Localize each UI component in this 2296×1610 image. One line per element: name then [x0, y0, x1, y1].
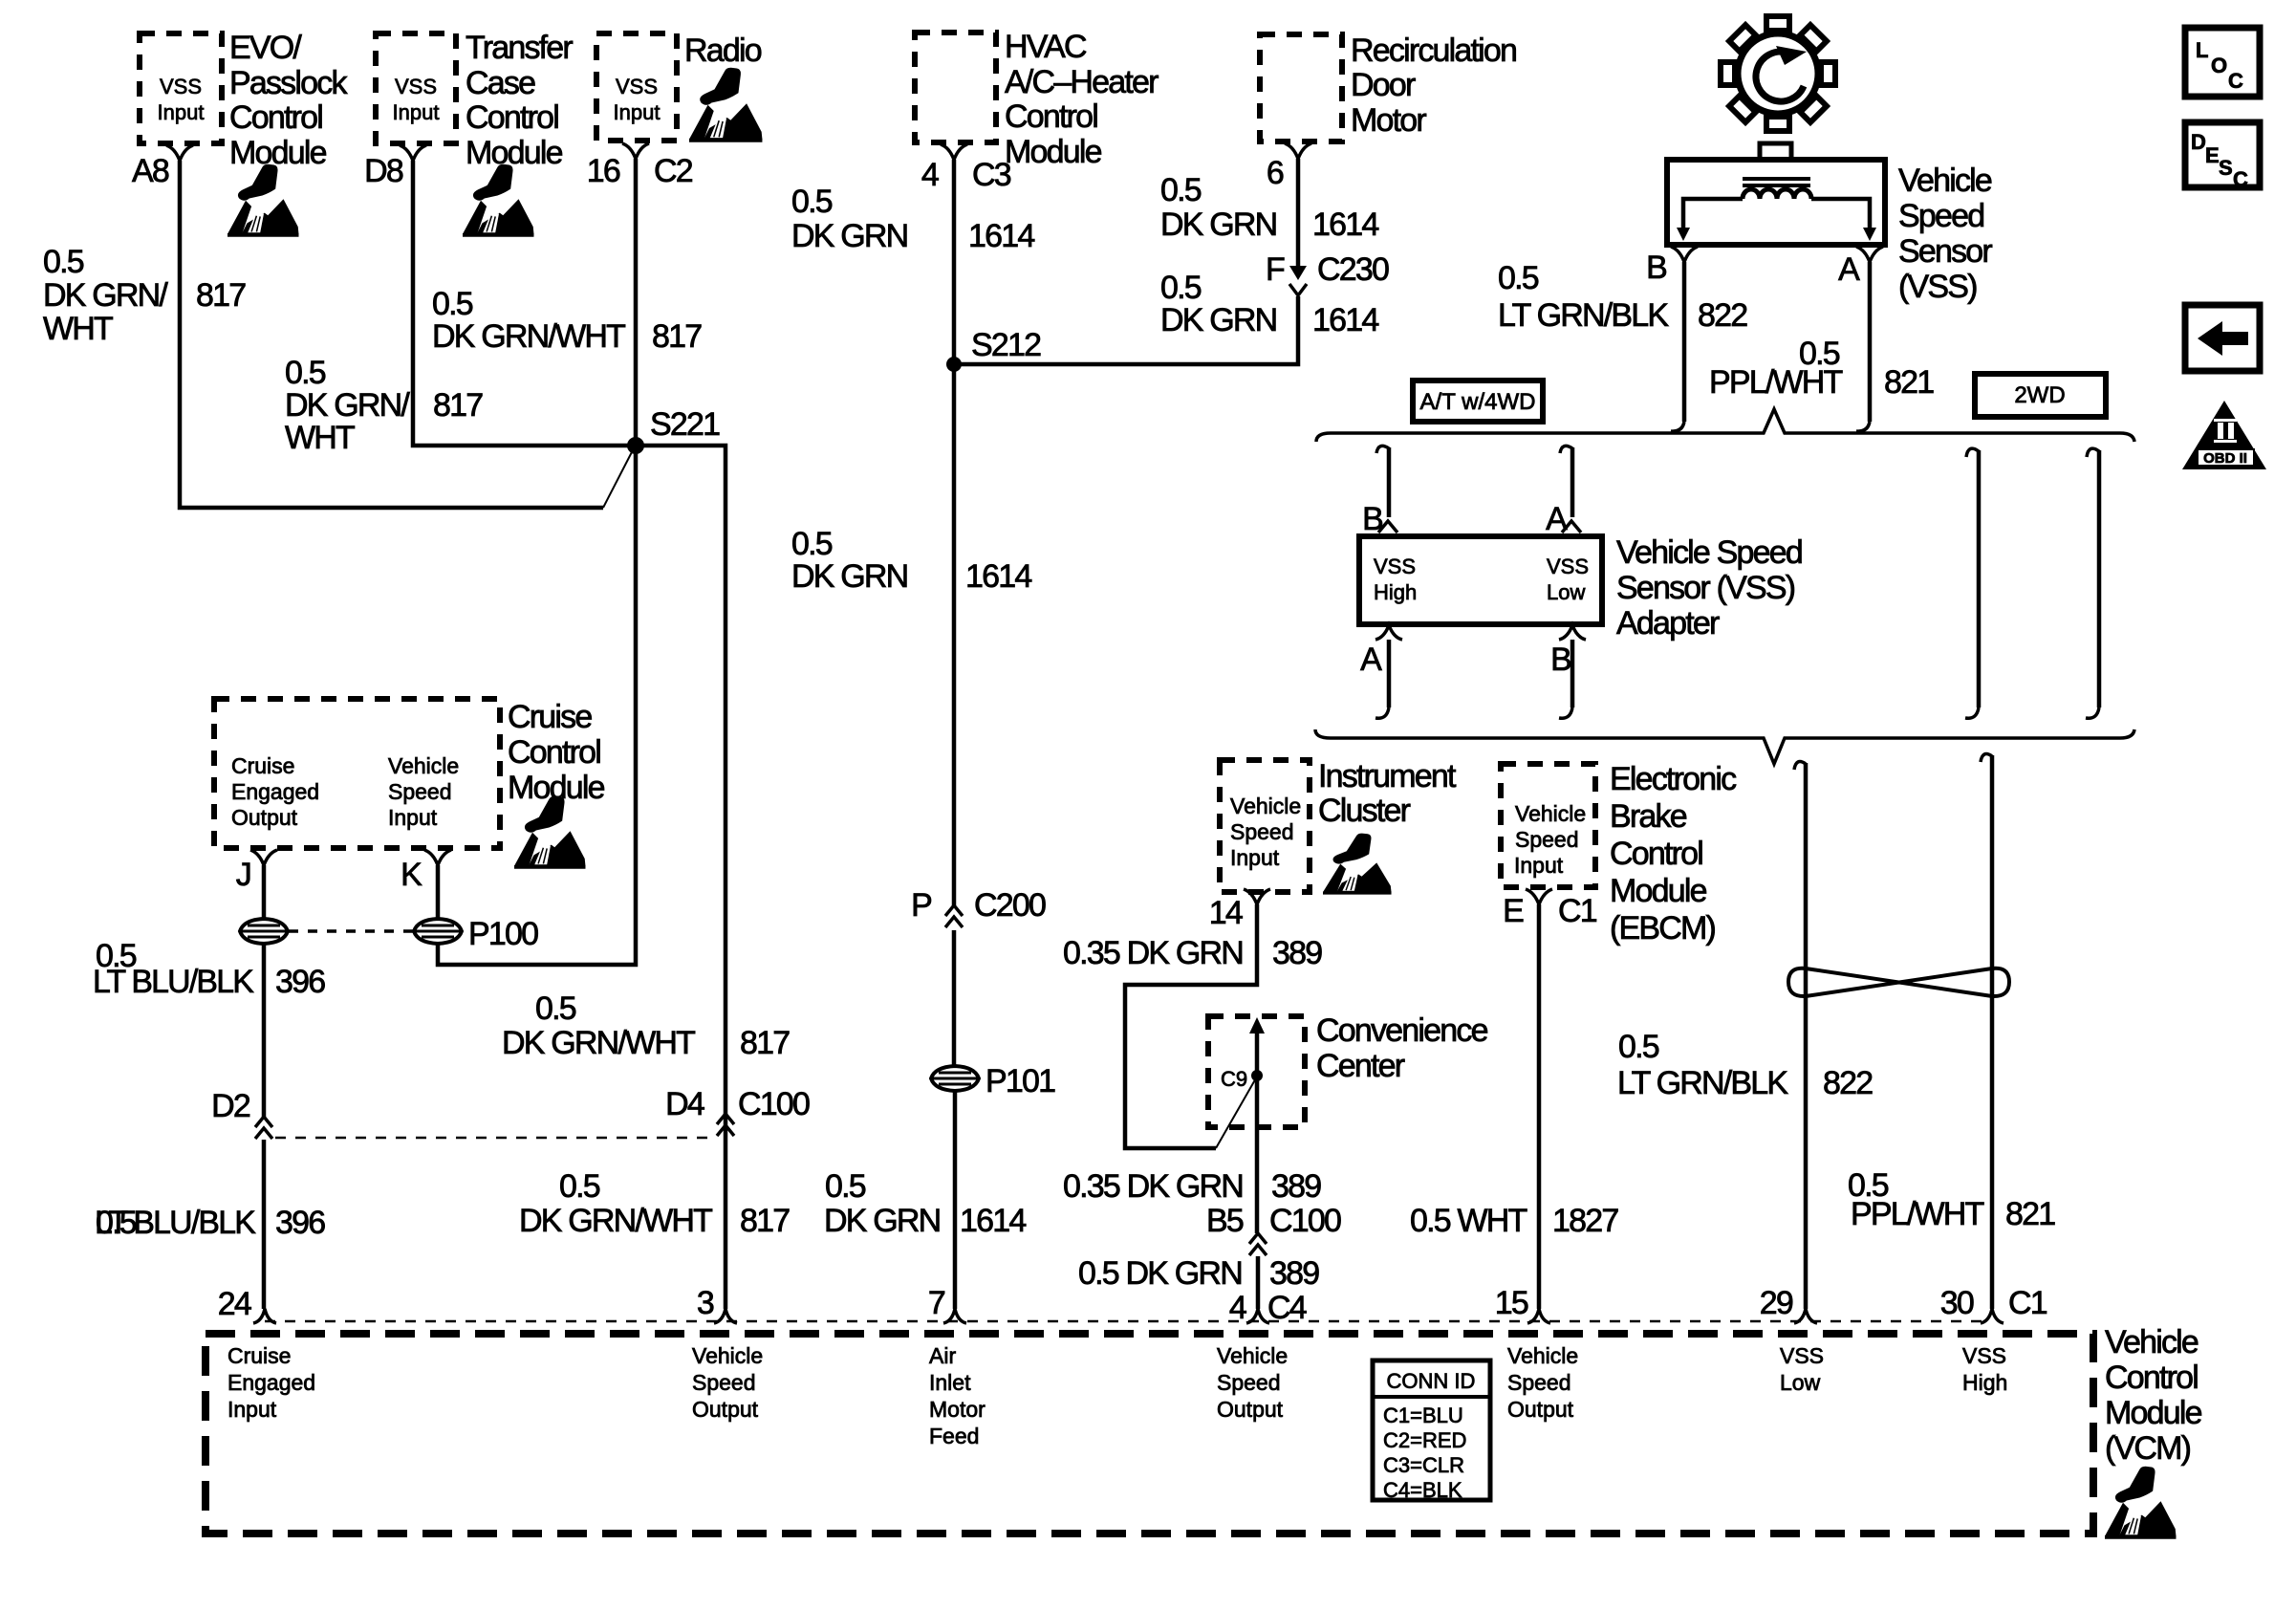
wire 822 from VSS B to harness brace [1682, 262, 1687, 422]
wire 396 from J to P100 [262, 865, 267, 919]
sensor coil winding [1743, 189, 1811, 199]
svg-text:0.5: 0.5 [791, 526, 833, 562]
svg-text:A: A [1360, 642, 1382, 678]
svg-text:817: 817 [740, 1203, 790, 1239]
svg-text:DK GRN: DK GRN [1160, 302, 1276, 338]
svg-text:Adapter: Adapter [1616, 605, 1720, 642]
svg-text:D: D [2191, 130, 2206, 154]
svg-text:1614: 1614 [960, 1203, 1026, 1239]
svg-text:1827: 1827 [1552, 1203, 1618, 1239]
svg-text:Control: Control [2105, 1360, 2198, 1396]
svg-text:EVO/: EVO/ [229, 30, 302, 66]
rotation arrow inside gear [1756, 52, 1804, 101]
svg-text:VSS: VSS [160, 75, 202, 98]
svg-text:Speed: Speed [1217, 1370, 1281, 1395]
svg-text:D2: D2 [211, 1088, 250, 1124]
svg-text:30: 30 [1940, 1285, 1974, 1321]
svg-text:0.5: 0.5 [1160, 172, 1202, 208]
svg-text:E: E [1503, 893, 1524, 929]
pin E C1 connector of EBCM [1526, 889, 1552, 904]
svg-text:Sensor: Sensor [1898, 233, 1992, 270]
adapter pin B lower connector [1559, 625, 1586, 640]
svg-text:Instrument: Instrument [1318, 758, 1457, 794]
sensor core bars [1743, 179, 1810, 185]
svg-text:LT BLU/BLK: LT BLU/BLK [93, 964, 254, 1000]
wire 817 from D8 to S221 [413, 161, 636, 446]
svg-text:Low: Low [1547, 580, 1585, 604]
svg-text:(VCM): (VCM) [2105, 1430, 2191, 1467]
dashed pairing line of P100 [289, 929, 414, 933]
pin A connector of VSS [1856, 247, 1883, 262]
pin K connector of Cruise module [424, 850, 451, 865]
connector C200 pin P (double chevron) [945, 905, 963, 927]
ESD symbol for EVO module [227, 164, 298, 237]
svg-text:Vehicle: Vehicle [1515, 801, 1586, 826]
svg-text:822: 822 [1823, 1065, 1873, 1101]
svg-text:DK GRN: DK GRN [791, 558, 907, 595]
svg-text:S: S [2219, 156, 2233, 180]
svg-text:Cluster: Cluster [1318, 793, 1411, 829]
svg-text:DK GRN: DK GRN [1160, 207, 1276, 243]
svg-text:C1=BLU: C1=BLU [1383, 1403, 1463, 1427]
svg-text:DK GRN/WHT: DK GRN/WHT [502, 1025, 695, 1061]
svg-text:A/T w/4WD: A/T w/4WD [1420, 389, 1536, 415]
ESD symbol for Radio [689, 68, 762, 142]
wire from K pin into P100 [436, 865, 441, 919]
svg-text:1614: 1614 [968, 218, 1034, 254]
svg-text:Engaged: Engaged [227, 1370, 315, 1395]
svg-text:Cruise: Cruise [227, 1343, 291, 1368]
svg-text:LT BLU/BLK: LT BLU/BLK [95, 1205, 256, 1241]
sensor mounting tab [1760, 143, 1791, 160]
stub wire A into adapter [1560, 446, 1572, 453]
VCM pin 15 connector [1527, 1309, 1550, 1323]
long 2WD wire 821 (pass-through) [2087, 448, 2099, 457]
svg-text:F: F [1266, 251, 1285, 288]
svg-text:0.35 DK GRN: 0.35 DK GRN [1063, 935, 1243, 971]
svg-text:Vehicle: Vehicle [1507, 1343, 1578, 1368]
svg-text:Motor: Motor [1351, 102, 1426, 139]
svg-text:(EBCM): (EBCM) [1610, 910, 1716, 946]
svg-text:Input: Input [1230, 845, 1280, 870]
svg-text:Passlock: Passlock [229, 65, 348, 101]
svg-text:Control: Control [1005, 98, 1097, 135]
svg-text:C1: C1 [2008, 1285, 2047, 1321]
pin 14 connector of Instrument Cluster [1244, 889, 1270, 904]
svg-text:Inlet: Inlet [929, 1370, 971, 1395]
svg-text:C: C [2233, 167, 2248, 191]
svg-text:Input: Input [393, 100, 440, 124]
connector C230 pin F (arrow + chevron) [1289, 266, 1307, 280]
svg-text:Output: Output [231, 805, 298, 830]
svg-text:C230: C230 [1317, 251, 1389, 288]
svg-text:Input: Input [1514, 853, 1564, 878]
svg-text:396: 396 [275, 964, 325, 1000]
ESD symbol for Transfer Case module [463, 164, 533, 237]
module U9 Electronic Brake Control Module EBCM (dashed box) [1501, 764, 1595, 887]
connector P101 pancake [931, 1066, 979, 1091]
pin D8 connector of Transfer Case module [400, 145, 426, 161]
svg-text:Vehicle: Vehicle [692, 1343, 763, 1368]
svg-text:VSS: VSS [616, 75, 658, 98]
wire 1614 branch S212 to C230 [954, 296, 1298, 364]
VCM pin 7 connector [943, 1309, 966, 1323]
svg-text:High: High [1962, 1370, 2007, 1395]
module U7 Instrument Cluster (dashed box) [1220, 760, 1310, 892]
harness brace lower [1315, 729, 2134, 764]
svg-text:L: L [2196, 38, 2208, 62]
wire 389 from C100 to VCM pin 4 [1256, 1256, 1261, 1309]
svg-text:DK GRN: DK GRN [824, 1203, 940, 1239]
svg-text:LT GRN/BLK: LT GRN/BLK [1498, 297, 1669, 334]
svg-text:Vehicle: Vehicle [1230, 794, 1301, 818]
svg-text:B: B [1550, 642, 1570, 678]
svg-text:B: B [1362, 501, 1382, 537]
svg-text:0.5: 0.5 [791, 184, 833, 220]
svg-text:E: E [2205, 143, 2220, 167]
svg-text:CONN ID: CONN ID [1387, 1369, 1476, 1393]
svg-text:Module: Module [229, 135, 327, 171]
svg-text:C1: C1 [1558, 893, 1597, 929]
long 2WD wire 822 (pass-through) [1966, 448, 1979, 457]
svg-text:0.5: 0.5 [825, 1168, 866, 1205]
svg-text:Vehicle Speed: Vehicle Speed [1616, 534, 1802, 571]
svg-text:24: 24 [218, 1286, 251, 1322]
option box 2WD [1975, 374, 2106, 417]
svg-text:14: 14 [1209, 895, 1243, 931]
wire 396 from P100 down to D2 [262, 945, 267, 1117]
svg-text:C2: C2 [654, 153, 693, 189]
svg-text:C100: C100 [738, 1086, 810, 1122]
svg-text:817: 817 [196, 277, 246, 314]
svg-text:P100: P100 [468, 916, 538, 952]
svg-text:B5: B5 [1206, 1203, 1244, 1239]
svg-text:0.5: 0.5 [1618, 1029, 1659, 1065]
svg-text:Speed: Speed [1507, 1370, 1571, 1395]
svg-text:O: O [2211, 54, 2227, 77]
connector C100 pin B5 (double chevron) [1249, 1233, 1267, 1255]
svg-text:Air: Air [929, 1343, 956, 1368]
ESD symbol for Instrument Cluster [1323, 834, 1392, 895]
svg-text:Speed: Speed [388, 779, 452, 804]
connector P100 (K side pancake) [414, 919, 462, 944]
svg-text:PPL/WHT: PPL/WHT [1709, 364, 1843, 401]
svg-text:Vehicle: Vehicle [1898, 163, 1992, 199]
reluctor gear of Vehicle Speed Sensor [1721, 16, 1835, 131]
svg-text:A/C–Heater: A/C–Heater [1005, 64, 1159, 100]
icon DESC box [2185, 122, 2260, 187]
svg-text:Speed: Speed [692, 1370, 756, 1395]
adapter pin A lower connector [1375, 625, 1402, 640]
svg-text:389: 389 [1269, 1255, 1319, 1292]
svg-text:Cruise: Cruise [508, 699, 592, 735]
svg-text:29: 29 [1760, 1285, 1793, 1321]
VCM pin 3 connector [714, 1309, 737, 1323]
module U3 Radio (dashed box) [596, 33, 677, 141]
svg-text:WHT: WHT [43, 311, 113, 347]
svg-text:Module: Module [466, 135, 563, 171]
svg-text:Vehicle: Vehicle [1217, 1343, 1288, 1368]
svg-text:Output: Output [1217, 1397, 1284, 1422]
module U2 Transfer Case Control Module (dashed box) [376, 33, 456, 143]
wire 821 VSS High to VCM pin 30 [1981, 754, 1992, 762]
svg-text:High: High [1374, 580, 1417, 604]
icon LOC box [2185, 28, 2260, 97]
pin A8 connector of EVO module [166, 145, 193, 161]
module U6 Recirculation Door Motor (dashed box) [1260, 34, 1342, 141]
svg-text:VSS: VSS [1374, 555, 1416, 578]
svg-text:P101: P101 [986, 1063, 1055, 1099]
wire 1614 from C200 to P101 [952, 930, 957, 1066]
wire arrow head into Convenience Center [1249, 1017, 1265, 1033]
svg-text:A8: A8 [132, 153, 169, 189]
terminal C9 [1251, 1070, 1263, 1081]
wire thin diagonal into C9 [1216, 1077, 1257, 1148]
stub wire B into adapter [1376, 446, 1389, 453]
connector P100 (J side pancake) [240, 919, 288, 944]
svg-text:Low: Low [1780, 1370, 1821, 1395]
svg-text:C9: C9 [1221, 1067, 1247, 1091]
component Vehicle Speed Sensor (VSS) Adapter [1359, 536, 1602, 624]
svg-text:0.5: 0.5 [43, 244, 84, 280]
svg-text:1614: 1614 [1312, 302, 1378, 338]
wire 396 from D2 to VCM pin 24 [262, 1140, 267, 1309]
svg-text:DK GRN/WHT: DK GRN/WHT [432, 318, 625, 355]
svg-text:HVAC: HVAC [1005, 29, 1087, 65]
svg-text:Module: Module [2105, 1395, 2202, 1431]
svg-text:7: 7 [928, 1285, 945, 1321]
svg-text:VSS: VSS [1962, 1343, 2006, 1368]
svg-text:Motor: Motor [929, 1397, 986, 1422]
wire 1614 from P101 to VCM pin 7 [953, 1091, 958, 1309]
svg-text:Output: Output [692, 1397, 759, 1422]
wire thin diagonal into S221 [603, 446, 635, 508]
svg-text:396: 396 [275, 1205, 325, 1241]
svg-text:Module: Module [1005, 134, 1102, 170]
svg-text:817: 817 [652, 318, 702, 355]
svg-text:Control: Control [508, 734, 600, 771]
svg-text:K: K [401, 857, 422, 893]
svg-text:817: 817 [740, 1025, 790, 1061]
component Vehicle Speed Sensor (VSS) body [1667, 160, 1885, 245]
sensor internal leads with arrows [1683, 199, 1870, 229]
svg-text:0.5 DK GRN: 0.5 DK GRN [1078, 1255, 1242, 1292]
connector C100 D4 (double chevron) [717, 1114, 734, 1136]
svg-text:3: 3 [697, 1285, 714, 1321]
wire 821 from VSS A to harness brace [1868, 262, 1873, 422]
option box A/T w/4WD [1413, 381, 1543, 422]
svg-text:Radio: Radio [684, 33, 762, 69]
svg-text:Vehicle: Vehicle [2105, 1324, 2199, 1360]
svg-text:0.5: 0.5 [285, 355, 326, 391]
svg-text:821: 821 [1884, 364, 1934, 401]
svg-text:DK GRN/WHT: DK GRN/WHT [519, 1203, 712, 1239]
pin B connector of VSS [1671, 247, 1698, 262]
svg-text:Output: Output [1507, 1397, 1574, 1422]
svg-text:D4: D4 [665, 1086, 704, 1122]
svg-text:VSS: VSS [1547, 555, 1589, 578]
dashed connector line D2 to D4 [275, 1137, 713, 1140]
wire 817 from Radio C2 down through S221 to P100 leg [438, 159, 636, 965]
wire 1614 from HVAC C3 down to C200 [952, 160, 957, 905]
module U10 Vehicle Control Module VCM (dashed box) [206, 1334, 2093, 1534]
svg-text:Input: Input [158, 100, 205, 124]
svg-text:C200: C200 [974, 887, 1046, 924]
wire 389 from pin 14 looping to Convenience Center [1125, 904, 1257, 1148]
VCM pin 30 connector [1981, 1309, 2004, 1323]
svg-text:PPL/WHT: PPL/WHT [1851, 1196, 1984, 1232]
svg-text:1614: 1614 [965, 558, 1031, 595]
svg-text:C3=CLR: C3=CLR [1383, 1453, 1464, 1477]
svg-text:J: J [236, 857, 250, 893]
svg-text:DK GRN: DK GRN [791, 218, 907, 254]
svg-text:D8: D8 [364, 153, 403, 189]
svg-text:817: 817 [433, 387, 483, 424]
svg-text:(VSS): (VSS) [1898, 269, 1977, 305]
svg-text:Input: Input [614, 100, 661, 124]
wire 1827 from EBCM E to VCM pin 15 [1537, 904, 1542, 1309]
svg-text:Case: Case [466, 65, 535, 101]
module U1 EVO/Passlock Control Module (dashed box) [140, 33, 222, 143]
wire 389 from C9 down to C100 B5 [1255, 1033, 1260, 1233]
svg-text:16: 16 [587, 153, 620, 189]
pin J connector of Cruise module [250, 850, 277, 865]
CONN ID legend table [1373, 1360, 1490, 1500]
splice S221 [627, 437, 644, 454]
svg-text:Convenience: Convenience [1316, 1012, 1488, 1049]
svg-text:Control: Control [466, 99, 558, 136]
svg-text:821: 821 [2005, 1196, 2055, 1232]
VCM pin 29 connector [1794, 1309, 1817, 1323]
svg-text:S212: S212 [971, 327, 1041, 363]
pin 4 C3 connector of HVAC module [941, 144, 967, 160]
ESD symbol for Cruise Control module [514, 796, 585, 869]
svg-text:VSS: VSS [395, 75, 437, 98]
svg-text:C100: C100 [1269, 1203, 1341, 1239]
svg-text:Sensor (VSS): Sensor (VSS) [1616, 570, 1795, 606]
adapter pin A stub to lower brace [1387, 640, 1392, 707]
thin dashed connector rail above VCM [265, 1320, 1991, 1323]
svg-text:Feed: Feed [929, 1424, 979, 1448]
svg-text:OBD II: OBD II [2203, 450, 2247, 467]
svg-text:0.5: 0.5 [1498, 260, 1539, 296]
adapter pin B stub to lower brace [1570, 640, 1575, 707]
svg-text:Recirculation: Recirculation [1351, 33, 1516, 69]
svg-text:389: 389 [1272, 935, 1322, 971]
svg-text:822: 822 [1698, 297, 1747, 334]
svg-text:DK GRN/: DK GRN/ [43, 277, 168, 314]
svg-text:LT GRN/BLK: LT GRN/BLK [1617, 1065, 1788, 1101]
svg-text:Electronic: Electronic [1610, 761, 1737, 797]
VCM pin 4 connector [1246, 1309, 1269, 1323]
harness brace upper [1316, 409, 2134, 442]
svg-text:0.5: 0.5 [559, 1168, 600, 1205]
svg-text:Input: Input [227, 1397, 277, 1422]
svg-text:0.35 DK GRN: 0.35 DK GRN [1063, 1168, 1243, 1205]
pin 6 connector of Recirculation Door Motor [1285, 143, 1311, 159]
svg-text:A: A [1546, 501, 1568, 537]
svg-text:Control: Control [1610, 836, 1702, 872]
svg-text:Brake: Brake [1610, 798, 1687, 835]
svg-text:C4=BLK: C4=BLK [1383, 1478, 1462, 1502]
icon back-arrow box [2185, 305, 2260, 371]
svg-text:0.5: 0.5 [1160, 270, 1202, 306]
svg-text:VSS: VSS [1780, 1343, 1824, 1368]
splice S212 [946, 357, 962, 372]
wire 822 VSS Low to VCM pin 29 [1794, 762, 1806, 770]
wire 1614 from pin 6 to C230 [1296, 159, 1301, 266]
svg-text:C2=RED: C2=RED [1383, 1428, 1466, 1452]
svg-text:Cruise: Cruise [231, 753, 294, 778]
svg-text:Speed: Speed [1230, 819, 1294, 844]
module U5 HVAC A/C-Heater Control Module (dashed box) [915, 33, 996, 142]
svg-text:B: B [1646, 250, 1666, 286]
svg-text:0.5: 0.5 [535, 990, 576, 1027]
module U8 Convenience Center (dashed box) [1208, 1016, 1305, 1127]
svg-text:2WD: 2WD [2014, 382, 2065, 408]
svg-text:0.5: 0.5 [432, 286, 473, 322]
svg-text:389: 389 [1271, 1168, 1321, 1205]
module U4 Cruise Control Module (dashed box) [214, 699, 500, 848]
svg-text:Input: Input [388, 805, 438, 830]
svg-text:0.5 WHT: 0.5 WHT [1410, 1203, 1527, 1239]
svg-text:Transfer: Transfer [466, 30, 573, 66]
svg-text:Speed: Speed [1898, 198, 1983, 234]
wire 817 branch S221 to VCM pin 3 [636, 446, 726, 1309]
svg-text:Center: Center [1316, 1048, 1405, 1084]
svg-text:Engaged: Engaged [231, 779, 319, 804]
twisted pair symbol on 822/821 [1788, 968, 2009, 996]
VCM pin 24 connector [253, 1309, 276, 1323]
svg-text:6: 6 [1267, 155, 1284, 191]
svg-text:Door: Door [1351, 67, 1416, 103]
svg-text:C: C [2228, 69, 2243, 93]
svg-text:Module: Module [1610, 873, 1707, 909]
connector C100 D2 (double chevron) [255, 1117, 272, 1139]
svg-text:15: 15 [1495, 1285, 1528, 1321]
svg-text:A: A [1838, 251, 1860, 288]
wire 817 from EVO A8 [180, 161, 603, 508]
svg-text:4: 4 [921, 157, 939, 193]
icon OBD II triangle [2182, 401, 2266, 469]
ESD symbol for VCM [2105, 1467, 2176, 1539]
svg-text:1614: 1614 [1312, 207, 1378, 243]
svg-text:Control: Control [229, 99, 322, 136]
svg-text:DK GRN/: DK GRN/ [285, 387, 410, 424]
svg-text:Vehicle: Vehicle [388, 753, 459, 778]
svg-text:C3: C3 [972, 157, 1011, 193]
svg-text:WHT: WHT [285, 420, 355, 456]
svg-text:P: P [911, 887, 931, 924]
pin 16 C2 connector of Radio [622, 143, 649, 159]
svg-text:S221: S221 [650, 406, 720, 443]
svg-text:Speed: Speed [1515, 827, 1579, 852]
